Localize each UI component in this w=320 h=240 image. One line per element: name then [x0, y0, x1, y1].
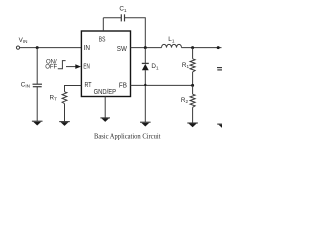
- svg-text:Basic Application Circuit: Basic Application Circuit: [94, 132, 161, 141]
- terminal VIN: [16, 46, 19, 49]
- wire SW pin: [131, 47, 162, 49]
- EN input arrow: [66, 64, 81, 69]
- wire R2 bottom: [192, 107, 194, 123]
- svg-text:GND/EP: GND/EP: [94, 87, 117, 96]
- wire BS to C1: [103, 17, 121, 19]
- wire CIN bottom: [36, 87, 38, 122]
- svg-text:VIN: VIN: [19, 37, 28, 44]
- svg-text:L1: L1: [168, 36, 175, 43]
- wire D1 anode down: [144, 70, 146, 122]
- inductor L1: [162, 44, 182, 47]
- diode D1: [142, 63, 149, 70]
- wire BS pin up: [102, 18, 104, 31]
- wire SW to D1: [144, 48, 146, 64]
- svg-text:R2: R2: [181, 97, 189, 104]
- svg-text:RT: RT: [85, 80, 92, 89]
- IC U1 box: [81, 31, 130, 97]
- ground (R2): [187, 123, 198, 127]
- junction node VOUT/C2: [217, 46, 220, 49]
- wire FB: [131, 84, 193, 86]
- ground (GND/EP): [100, 118, 110, 122]
- svg-text:C1: C1: [119, 6, 127, 13]
- wire VIN to IN pin: [20, 47, 82, 49]
- wire GND/EP pin down: [104, 97, 106, 118]
- capacitor C1 (bootstrap): [121, 14, 124, 21]
- capacitor CIN: [33, 84, 43, 87]
- wire CIN top: [36, 48, 38, 85]
- wire R2 top: [192, 85, 194, 94]
- ground (RT): [59, 122, 70, 126]
- resistor R1: [190, 59, 195, 72]
- wire RT bottom: [64, 104, 66, 122]
- junction node SW: [144, 46, 147, 49]
- resistor R2: [190, 94, 195, 107]
- resistor RT: [62, 92, 67, 104]
- wire R1 bottom to FB node: [192, 72, 194, 86]
- svg-text:FB: FB: [119, 80, 127, 89]
- junction node VOUT/R1: [191, 46, 194, 49]
- junction node FB crossing: [144, 84, 146, 86]
- wire L1 to output: [182, 47, 222, 49]
- svg-text:SW: SW: [117, 44, 127, 53]
- svg-text:R1: R1: [182, 62, 190, 69]
- ground (C2, clipped at edge): [217, 124, 226, 128]
- junction node VIN/CIN: [36, 46, 39, 49]
- junction node FB/R1/R2: [191, 84, 194, 87]
- svg-text:D1: D1: [151, 63, 159, 70]
- wire C1 to SW node: [125, 18, 146, 48]
- svg-text:IN: IN: [84, 43, 90, 52]
- svg-text:CIN: CIN: [21, 81, 30, 88]
- svg-text:EN: EN: [83, 62, 89, 71]
- wire RT pin: [65, 86, 82, 92]
- svg-text:BS: BS: [99, 35, 106, 44]
- wire R1 top: [192, 48, 194, 59]
- EN step waveform symbol: [58, 61, 66, 69]
- svg-text:OFF: OFF: [45, 65, 57, 71]
- capacitor C2 (output, clipped at edge): [217, 68, 222, 70]
- ground (CIN): [32, 121, 43, 125]
- svg-text:RT: RT: [50, 94, 58, 101]
- ground (D1): [140, 122, 151, 126]
